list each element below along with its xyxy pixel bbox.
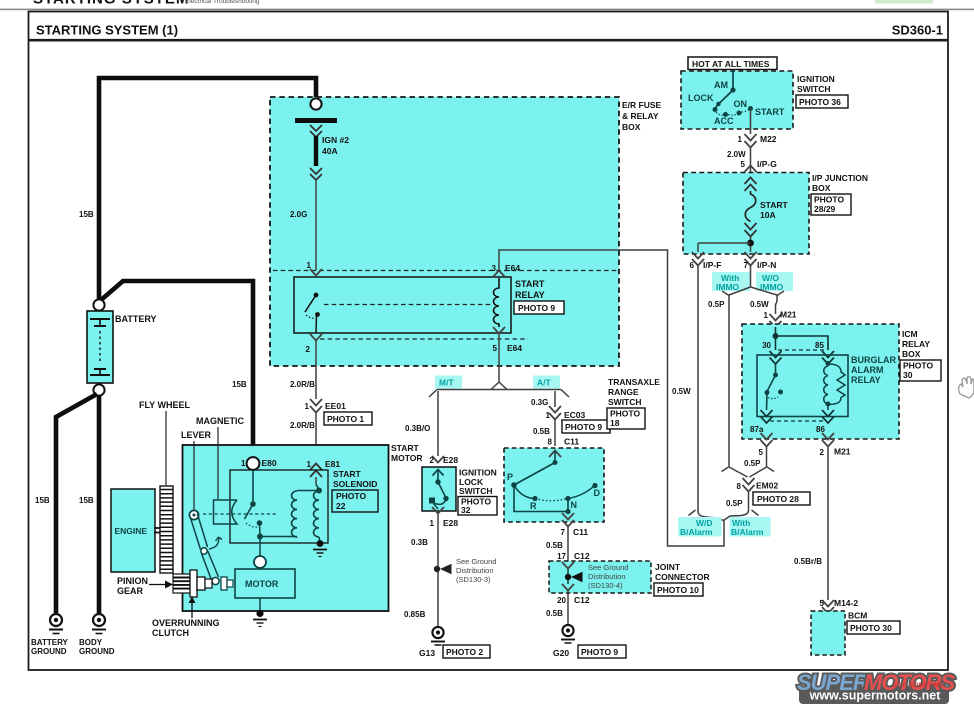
wire: junction to pull-in coil [260, 536, 297, 538]
note See Ground Distribution (SD130-3) [456, 557, 496, 584]
svg-text:5: 5 [741, 160, 746, 169]
wire: start relay pin3 feed loop (to B/Alarm merge) [499, 250, 724, 546]
svg-text:IMMO: IMMO [716, 282, 740, 292]
svg-text:5: 5 [759, 448, 764, 457]
wire: E28 to G13 [437, 514, 439, 627]
pinion gear (striped) [173, 574, 190, 593]
svg-text:GROUND: GROUND [31, 647, 67, 656]
svg-text:PHOTO 9: PHOTO 9 [518, 303, 555, 313]
svg-text:EE01: EE01 [325, 401, 346, 411]
svg-text:GEAR: GEAR [117, 586, 144, 596]
svg-text:N: N [571, 500, 578, 510]
solenoid junction node [257, 534, 263, 540]
labels 30 / 85 [762, 341, 824, 350]
connector 8 EM02 [737, 478, 779, 492]
connector E81 [307, 459, 341, 477]
label With IMMO highlight [712, 272, 750, 292]
label START SOLENOID [333, 469, 377, 489]
svg-text:BOX: BOX [622, 122, 641, 132]
svg-text:C11: C11 [573, 527, 588, 537]
fuse box internal dashed bus (top) [273, 270, 617, 272]
svg-text:TRANSAXLE: TRANSAXLE [608, 377, 660, 387]
svg-text:STARTING SYSTEM (1): STARTING SYSTEM (1) [36, 23, 178, 38]
svg-text:PHOTO: PHOTO [814, 195, 844, 205]
hold-in coil [314, 491, 320, 537]
engine block [111, 489, 155, 572]
svg-text:0.5B: 0.5B [546, 609, 563, 618]
svg-text:START: START [391, 443, 420, 453]
svg-text:32: 32 [461, 505, 471, 515]
B/Alarm merge [689, 510, 759, 521]
svg-text:0.3B/O: 0.3B/O [405, 424, 430, 433]
wire: hot feed into ignition switch [732, 70, 734, 90]
label FLY WHEEL + leader [139, 400, 191, 485]
svg-text:EST. SOMETIME: EST. SOMETIME [893, 682, 944, 689]
wire: thick battery ground cable [56, 394, 97, 613]
solenoid switch contacts [245, 501, 263, 535]
svg-text:M14-2: M14-2 [834, 598, 858, 608]
ignition switch contacts [713, 87, 754, 117]
solenoid inner housing [230, 470, 328, 543]
svg-text:BOX: BOX [902, 349, 921, 359]
ICM relay box [742, 324, 899, 439]
svg-text:PHOTO: PHOTO [336, 491, 366, 501]
chevrons below fuse [745, 223, 757, 237]
merge into EM02 [722, 467, 775, 477]
svg-text:M/T: M/T [439, 378, 454, 388]
svg-text:2.0R/B: 2.0R/B [290, 380, 315, 389]
connector EE01 [305, 399, 347, 413]
svg-text:STARTING SYSTEM: STARTING SYSTEM [33, 0, 189, 8]
pull-in coil [292, 491, 298, 537]
svg-text:22: 22 [336, 501, 346, 511]
label PHOTO 18 box [607, 408, 645, 429]
wire: M/T branch down to E28 [437, 391, 439, 456]
svg-text:85: 85 [815, 341, 824, 350]
wire: With IMMO 0.5P drop [728, 295, 730, 467]
ground distribution junction (SD130-3) [434, 564, 452, 574]
label W/D B/Alarm highlight [678, 517, 722, 537]
label PHOTO 1 box [324, 412, 372, 425]
wire: coil tops join [297, 490, 319, 492]
svg-text:30: 30 [762, 341, 771, 350]
lever arm upper [191, 514, 208, 550]
svg-text:RELAY: RELAY [902, 339, 930, 349]
svg-text:I/P JUNCTION: I/P JUNCTION [812, 173, 868, 183]
label With B/Alarm highlight [730, 517, 771, 537]
svg-text:G13: G13 [419, 648, 435, 658]
svg-text:0.5P: 0.5P [726, 499, 743, 508]
start relay pin 1 [307, 261, 322, 276]
fuse START 10A element [745, 191, 756, 222]
svg-text:C12: C12 [574, 595, 590, 605]
pin 86 chevrons [816, 410, 834, 434]
wire: C12 to G20 [567, 591, 569, 624]
label LEVER + leader [181, 430, 212, 510]
chevrons into fuse START 10A [745, 178, 757, 192]
ignition lock switch contacts [429, 470, 449, 510]
svg-text:ICM: ICM [902, 329, 918, 339]
svg-text:B/Alarm: B/Alarm [731, 527, 764, 537]
svg-text:3: 3 [492, 264, 497, 273]
node + feed split inside ICM box [773, 327, 829, 350]
svg-text:8: 8 [548, 438, 553, 447]
svg-text:PHOTO 30: PHOTO 30 [850, 623, 892, 633]
connector 1 M21 [764, 310, 797, 328]
svg-text:E64: E64 [505, 263, 520, 273]
label IGNITION SWITCH [797, 74, 835, 94]
supermotors logo text [797, 670, 955, 695]
svg-text:PHOTO 28: PHOTO 28 [757, 494, 799, 504]
ground G20 [561, 625, 575, 643]
labels AM LOCK ACC ON START [688, 80, 785, 126]
label PHOTO 9 box [562, 420, 610, 433]
label PHOTO 32 box [458, 497, 497, 516]
svg-text:0.5W: 0.5W [672, 387, 691, 396]
svg-text:B/Alarm: B/Alarm [680, 527, 713, 537]
svg-text:0.3G: 0.3G [531, 398, 548, 407]
svg-text:SOLENOID: SOLENOID [333, 479, 377, 489]
svg-text:CONNECTOR: CONNECTOR [655, 572, 710, 582]
wire: contact to motor terminal [259, 537, 261, 557]
svg-text:PHOTO 9: PHOTO 9 [581, 647, 618, 657]
svg-text:2: 2 [306, 345, 311, 354]
label PHOTO 28/29 box [811, 194, 851, 215]
svg-text:C11: C11 [564, 437, 579, 447]
svg-text:30: 30 [903, 370, 913, 380]
I/P junction box [683, 173, 809, 255]
label BURGLAR ALARM RELAY [851, 355, 896, 385]
wire: start relay pin5 down [498, 334, 500, 383]
svg-text:15B: 15B [232, 380, 247, 389]
connector E80 (battery cable terminal) [241, 457, 277, 470]
svg-text:MOTOR: MOTOR [245, 579, 279, 589]
wire: E81 into solenoid [315, 477, 317, 484]
BCM box [811, 611, 845, 655]
svg-text:Distribution: Distribution [456, 566, 494, 575]
label PHOTO 28 box [753, 492, 810, 505]
label PHOTO 30 box [847, 621, 900, 634]
svg-text:(SD130-4): (SD130-4) [588, 581, 623, 590]
svg-text:E64: E64 [507, 343, 522, 353]
svg-text:IGNITION: IGNITION [459, 468, 497, 478]
svg-text:START: START [515, 279, 545, 289]
svg-text:R: R [530, 501, 537, 511]
svg-text:2: 2 [820, 448, 825, 457]
svg-text:MOTOR: MOTOR [391, 453, 422, 463]
wire: pin5 87a drop [766, 447, 768, 467]
87a exit chevrons [759, 433, 773, 457]
connector 5 I/P-G [741, 159, 778, 172]
fuse IGN#2 40A element [310, 125, 322, 180]
svg-text:15B: 15B [79, 496, 94, 505]
start relay box outline [294, 277, 511, 333]
wire: fuse to start relay pin1 [315, 180, 317, 270]
flywheel ring gear [160, 486, 173, 573]
svg-text:M21: M21 [780, 310, 797, 320]
svg-text:I/P-G: I/P-G [757, 159, 777, 169]
supermotors watermark band [799, 686, 949, 705]
wire: EE01 to E81 [315, 413, 317, 474]
M/T - A/T option split [429, 382, 569, 397]
svg-text:FLY WHEEL: FLY WHEEL [139, 400, 191, 410]
lever foot joint [212, 577, 219, 584]
svg-text:7: 7 [561, 528, 566, 537]
rotation arrow [209, 537, 222, 549]
svg-text:0.3B: 0.3B [411, 538, 428, 547]
burglar alarm relay contact switch [765, 364, 784, 410]
86 exit chevrons / 2 M21 [820, 433, 851, 457]
start relay coil [494, 278, 500, 327]
svg-text:ALARM: ALARM [851, 365, 884, 375]
note See Ground Distribution (SD130-4) [588, 563, 628, 590]
svg-text:2: 2 [430, 456, 435, 465]
svg-text:PHOTO 36: PHOTO 36 [799, 97, 841, 107]
svg-text:10A: 10A [760, 210, 776, 220]
label OVERRUNNING CLUTCH + leader [152, 597, 220, 639]
svg-text:D: D [594, 488, 601, 498]
svg-text:SUPER: SUPER [797, 670, 869, 695]
svg-text:2.0G: 2.0G [290, 210, 307, 219]
label IGNITION LOCK SWITCH [459, 468, 497, 497]
svg-text:START: START [333, 469, 362, 479]
svg-text:IGNITION: IGNITION [797, 74, 835, 84]
svg-text:ENGINE: ENGINE [115, 526, 148, 536]
start relay contact switch [305, 293, 320, 333]
svg-text:1: 1 [738, 135, 743, 144]
svg-text:START: START [755, 107, 785, 117]
svg-text:PHOTO 1: PHOTO 1 [327, 414, 364, 424]
connector EC03 [546, 406, 586, 420]
connector 5 M14-2 [820, 598, 859, 614]
svg-text:SWITCH: SWITCH [797, 84, 831, 94]
hand cursor [959, 377, 974, 398]
wire to solenoid ground [319, 537, 320, 543]
svg-text:BCM: BCM [848, 611, 867, 621]
burglar alarm relay coil + resistor [824, 361, 845, 410]
svg-text:PHOTO 10: PHOTO 10 [657, 585, 699, 595]
label START RELAY [515, 279, 545, 300]
svg-text:ON: ON [734, 99, 748, 109]
svg-text:LEVER: LEVER [181, 430, 212, 440]
start relay pin 5 / E64 [493, 327, 523, 353]
wire: W/O IMMO to M21 [776, 295, 778, 314]
svg-text:(SD130-3): (SD130-3) [456, 575, 491, 584]
svg-text:CLUTCH: CLUTCH [152, 628, 189, 638]
connector 8 C11 [548, 437, 580, 447]
svg-text:1: 1 [764, 311, 769, 320]
start relay pin 2 [306, 334, 322, 354]
svg-text:1: 1 [546, 411, 551, 420]
ground: body ground [92, 614, 106, 634]
label PHOTO 2 box [443, 645, 490, 658]
svg-text:18: 18 [610, 418, 620, 428]
svg-text:PHOTO: PHOTO [610, 409, 640, 419]
svg-text:PHOTO: PHOTO [903, 361, 933, 371]
wire: thick cable battery to start motor B+ [101, 281, 253, 457]
label I/P JUNCTION BOX [812, 173, 868, 193]
label PHOTO 30 box [900, 360, 941, 381]
svg-text:RANGE: RANGE [608, 387, 639, 397]
svg-text:RELAY: RELAY [515, 290, 545, 300]
label HOT AT ALL TIMES box [688, 57, 777, 70]
svg-text:BATTERY: BATTERY [115, 314, 157, 324]
pin chevron into range switch [549, 451, 561, 458]
svg-text:1: 1 [430, 519, 435, 528]
svg-text:LOCK: LOCK [688, 93, 714, 103]
svg-text:E28: E28 [443, 518, 458, 528]
label E/R FUSE & RELAY BOX [622, 100, 662, 132]
wire: A/T branch down [554, 391, 556, 407]
battery top terminal node [93, 299, 104, 310]
lever arm lower [202, 551, 219, 581]
ground distribution junction (SD130-4) [565, 569, 583, 584]
start motor box [183, 445, 389, 611]
connector 1 M22 [738, 134, 777, 148]
svg-text:2.0W: 2.0W [727, 150, 746, 159]
svg-text:0.5B: 0.5B [533, 427, 550, 436]
labels P R N D [507, 472, 601, 511]
svg-text:87a: 87a [750, 425, 764, 434]
wire + junction node in I/P box [698, 236, 754, 252]
svg-text:PHOTO 9: PHOTO 9 [565, 422, 602, 432]
svg-text:0.5P: 0.5P [708, 300, 725, 309]
label W/O IMMO highlight [756, 272, 793, 292]
svg-text:Distribution: Distribution [588, 572, 626, 581]
connector 1 E28 [430, 507, 459, 528]
label MAGNETIC + leader [196, 416, 244, 499]
label PHOTO 9 box [578, 645, 626, 658]
wire: thick battery positive cable to fuse box [99, 78, 316, 301]
svg-text:28/29: 28/29 [814, 204, 836, 214]
title separator line [28, 39, 948, 42]
label ICM RELAY BOX [902, 329, 930, 359]
pin 85 chevrons [822, 351, 834, 364]
svg-text:See Ground: See Ground [588, 563, 628, 572]
chevron into dist box [562, 562, 574, 569]
svg-text:15B: 15B [35, 496, 50, 505]
wire: EM02 down [748, 492, 750, 510]
svg-text:PHOTO 2: PHOTO 2 [446, 647, 483, 657]
fuse IGN#2 top node [310, 98, 321, 109]
pin 87a chevrons [750, 410, 773, 434]
svg-text:BATTERY: BATTERY [31, 638, 69, 647]
motor M [235, 569, 295, 598]
label PHOTO 22 box [332, 490, 378, 512]
overrunning clutch assembly [190, 570, 233, 597]
fuse IGN#2 bus bar [295, 118, 337, 123]
wire: motor to ground [259, 598, 261, 612]
fuse box internal dashed bus (middle) [324, 304, 492, 306]
svg-text:Electrical Troubleshooting: Electrical Troubleshooting [185, 0, 260, 5]
svg-text:IGN #2: IGN #2 [322, 135, 349, 145]
connector 20 C12 [557, 595, 590, 605]
label TRANSAXLE RANGE SWITCH [608, 377, 660, 407]
svg-text:C12: C12 [574, 551, 590, 561]
engine to flywheel shaft [154, 528, 161, 533]
svg-text:6: 6 [690, 261, 695, 270]
svg-text:See Ground: See Ground [456, 557, 496, 566]
svg-text:0.5P: 0.5P [744, 459, 761, 468]
top hairline [0, 9, 974, 11]
svg-text:0.5B: 0.5B [546, 541, 563, 550]
svg-text:EM02: EM02 [756, 481, 778, 491]
wire: relay pin2 to EE01 [315, 341, 317, 399]
solenoid ground [313, 540, 327, 556]
svg-text:M22: M22 [760, 134, 777, 144]
svg-text:BURGLAR: BURGLAR [851, 355, 896, 365]
connector 17 C12 [557, 551, 590, 561]
svg-text:GROUND: GROUND [79, 647, 115, 656]
label START 10A [760, 200, 789, 220]
svg-text:SWITCH: SWITCH [459, 486, 493, 496]
node: coil junction [316, 488, 322, 494]
svg-text:1: 1 [307, 460, 312, 469]
svg-text:20: 20 [557, 596, 566, 605]
svg-text:0.5W: 0.5W [750, 300, 769, 309]
pin7 option split [722, 266, 784, 296]
svg-text:G20: G20 [553, 648, 569, 658]
svg-text:AM: AM [714, 80, 728, 90]
svg-text:1: 1 [241, 459, 246, 468]
magnetic switch plunger [214, 500, 238, 524]
solenoid contact feed wire [252, 470, 254, 502]
battery BAT1 [87, 311, 113, 383]
svg-text:E28: E28 [443, 455, 458, 465]
wire: EC03 to C11 [554, 420, 556, 446]
svg-text:2.0R/B: 2.0R/B [290, 421, 315, 430]
label PHOTO 9 box [514, 301, 564, 314]
label PHOTO 10 box [654, 583, 703, 596]
battery bottom terminal node [93, 384, 104, 395]
svg-text:0.5Br/B: 0.5Br/B [794, 557, 822, 566]
wire: M22 to I/P-G [750, 148, 752, 172]
svg-text:& RELAY: & RELAY [622, 111, 659, 121]
svg-text:EC03: EC03 [564, 410, 586, 420]
wire: start contact out of box [750, 109, 752, 134]
label M/T highlight [435, 376, 462, 389]
ground distribution box (SD130-4) [549, 561, 651, 593]
svg-text:SWITCH: SWITCH [608, 397, 642, 407]
svg-text:A/T: A/T [537, 378, 552, 388]
svg-text:17: 17 [557, 552, 566, 561]
label JOINT CONNECTOR [655, 562, 710, 582]
label A/T highlight [533, 376, 560, 389]
ground: battery ground [49, 614, 63, 634]
svg-text:5: 5 [493, 344, 498, 353]
svg-text:E/R FUSE: E/R FUSE [622, 100, 662, 110]
svg-text:PINION: PINION [117, 576, 148, 586]
svg-text:1: 1 [305, 402, 310, 411]
ignition lock switch box [422, 467, 456, 511]
dashed bus in ICM box (bottom) [770, 420, 826, 422]
label PINION GEAR + arrow [117, 576, 173, 596]
connector 6 I/P-F [690, 252, 722, 270]
svg-text:BODY: BODY [79, 638, 103, 647]
connector 7 I/P-N [744, 252, 777, 270]
svg-text:8: 8 [737, 482, 742, 491]
svg-text:START: START [760, 200, 789, 210]
lever pivot [189, 510, 198, 519]
svg-text:0.85B: 0.85B [404, 610, 426, 619]
svg-text:ACC: ACC [714, 116, 734, 126]
svg-text:1: 1 [307, 261, 312, 270]
wire: pin6 long drop [697, 266, 699, 512]
svg-text:P: P [507, 472, 513, 482]
transaxle range switch contacts [511, 451, 597, 514]
svg-text:E80: E80 [262, 458, 277, 468]
svg-text:40A: 40A [322, 146, 338, 156]
